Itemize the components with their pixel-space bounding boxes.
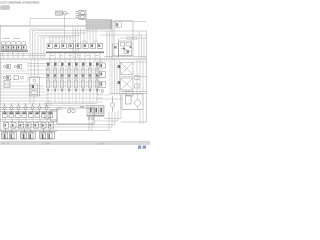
wire bottom-left horizontals bbox=[0, 107, 62, 109]
solenoid manifold bar center bbox=[46, 52, 104, 54]
small valve right bbox=[126, 92, 133, 97]
label plate small B bbox=[133, 37, 137, 39]
wire right column verticals bbox=[138, 31, 140, 58]
relief valve dark marks bbox=[123, 48, 125, 50]
cushion block base bar bbox=[87, 115, 104, 116]
wire pump risers bbox=[72, 27, 74, 59]
aux valve right A bbox=[135, 76, 140, 80]
cushion valve block bbox=[87, 106, 104, 117]
svg-text:− 100% +: − 100% + bbox=[95, 142, 107, 146]
filter box bottom right bbox=[122, 94, 143, 110]
spool valve V7 bbox=[88, 68, 92, 88]
valve stack dark marks bbox=[101, 64, 103, 86]
pilot valve group PV1 bbox=[2, 130, 17, 140]
pilot pump unit bbox=[56, 11, 71, 15]
inter-column return lines bbox=[52, 62, 94, 102]
tank vent mark bbox=[80, 106, 84, 107]
solenoid valve row center bbox=[47, 44, 103, 49]
wire drops from left manifold bbox=[2, 52, 4, 58]
spool valve V5 bbox=[74, 68, 78, 88]
tank pump symbols bbox=[67, 108, 75, 113]
wire right verticals bbox=[136, 60, 138, 94]
wire through shuttle row bbox=[0, 107, 50, 109]
wire lower-left horizontals bbox=[0, 85, 44, 87]
wire right risers bbox=[106, 31, 108, 58]
aux valve right B bbox=[135, 84, 140, 88]
aux block left bbox=[4, 81, 10, 88]
wire right bus horizontals bbox=[86, 30, 147, 32]
PV1 dark marks bbox=[4, 134, 12, 139]
spool valve V2 bbox=[53, 68, 57, 88]
label text smudge B bbox=[13, 37, 20, 40]
PV3 dark marks bbox=[42, 134, 50, 139]
pilot manifold left bar bbox=[1, 50, 29, 52]
accumulator dark mark bbox=[7, 76, 8, 79]
spool valve V4 bbox=[67, 68, 71, 88]
footer strip bbox=[0, 142, 150, 145]
cushion block dark marks bbox=[90, 108, 102, 113]
spool cap row bbox=[47, 63, 99, 66]
right edge return line bbox=[121, 31, 147, 122]
check valve circle bbox=[110, 96, 114, 112]
label smudges above solenoid row bbox=[49, 40, 98, 43]
solenoid unit dark marks bbox=[7, 65, 19, 68]
regulator box outline bbox=[114, 21, 133, 57]
pressure sensor box right bbox=[113, 44, 119, 56]
pilot manifold left row comps bbox=[2, 45, 27, 49]
solenoid valve unit dashed box bbox=[1, 62, 28, 71]
regulator inner valve bbox=[115, 22, 121, 28]
svg-text:‹ 3 / 44 ›: ‹ 3 / 44 › bbox=[41, 142, 51, 146]
pilot manifold left upper row bbox=[2, 42, 26, 45]
spool mid dark marks bbox=[47, 75, 98, 77]
travel motor block M2 bbox=[121, 78, 134, 90]
main pump P1 bbox=[76, 11, 86, 15]
main pump P2 bbox=[76, 15, 86, 19]
footer toolbar marks left bbox=[2, 143, 5, 144]
wire right horizontals bbox=[133, 61, 147, 63]
wire return loop right bbox=[104, 110, 121, 119]
label text smudge A bbox=[2, 37, 10, 40]
wire inter-row connectors bbox=[1, 25, 47, 130]
spool valve V1 bbox=[46, 68, 50, 88]
wire pilot lines mid-left bbox=[28, 63, 48, 65]
hydraulic tank bbox=[57, 108, 94, 124]
reducing valve stack mid-left bbox=[30, 77, 40, 96]
wire X-block to filter drops bbox=[123, 90, 138, 110]
label smudges above spools bbox=[50, 54, 99, 57]
relief valve box right bbox=[119, 41, 132, 56]
suction strainer bbox=[51, 110, 58, 121]
strainer aux box bbox=[45, 112, 50, 119]
pilot valve group PV3 bbox=[40, 130, 55, 140]
remote control bank row2 bbox=[4, 123, 54, 129]
remote control bank row1 bbox=[3, 112, 53, 118]
spool valve V6 bbox=[81, 68, 85, 88]
swing motor block M1 bbox=[121, 63, 134, 75]
svg-text:CUIT DIAGRAM (STANDARD): CUIT DIAGRAM (STANDARD) bbox=[0, 1, 39, 5]
spool lower marks bbox=[47, 89, 98, 91]
wire comb under solenoid bus bbox=[49, 36, 51, 44]
motor M2 side marks bbox=[118, 81, 120, 84]
shuttle valve circles row bbox=[3, 103, 48, 112]
wire top bus from pumps bbox=[30, 18, 86, 25]
bank row2 inner marks bbox=[5, 124, 52, 126]
nav icon blue right bbox=[143, 146, 146, 149]
nav icon blue left bbox=[138, 146, 141, 149]
wire nested corners left-center bbox=[30, 29, 64, 58]
wire lines above tank bbox=[44, 104, 97, 106]
control valve section lines bbox=[46, 62, 103, 103]
wire long bus pair mid bbox=[104, 55, 147, 57]
pump housing gray block bbox=[86, 20, 112, 30]
label plate small A bbox=[127, 37, 131, 39]
pilot valve group PV2 bbox=[21, 130, 36, 140]
wire pilot line vertical bbox=[64, 15, 66, 43]
cushion sub circles bbox=[88, 118, 94, 120]
spool valve V8 bbox=[95, 68, 99, 88]
reducing valve dark mark bbox=[32, 85, 34, 88]
accumulator block dashed bbox=[1, 73, 28, 82]
PV2 dark marks bbox=[23, 134, 31, 139]
legend gray box bbox=[1, 6, 10, 9]
solenoid valve row dark marks bbox=[48, 45, 100, 47]
wire vertical risers mid-left bbox=[30, 60, 32, 77]
motor M1 side marks bbox=[118, 65, 120, 68]
wire drops from center manifold bbox=[49, 53, 51, 62]
valve stack dashed box right bbox=[97, 61, 110, 95]
spool valve V3 bbox=[60, 68, 64, 88]
wire center-right bundle bbox=[111, 56, 113, 95]
pilot manifold left dark marks bbox=[3, 46, 25, 48]
bank row1 dark caps bbox=[3, 113, 52, 115]
